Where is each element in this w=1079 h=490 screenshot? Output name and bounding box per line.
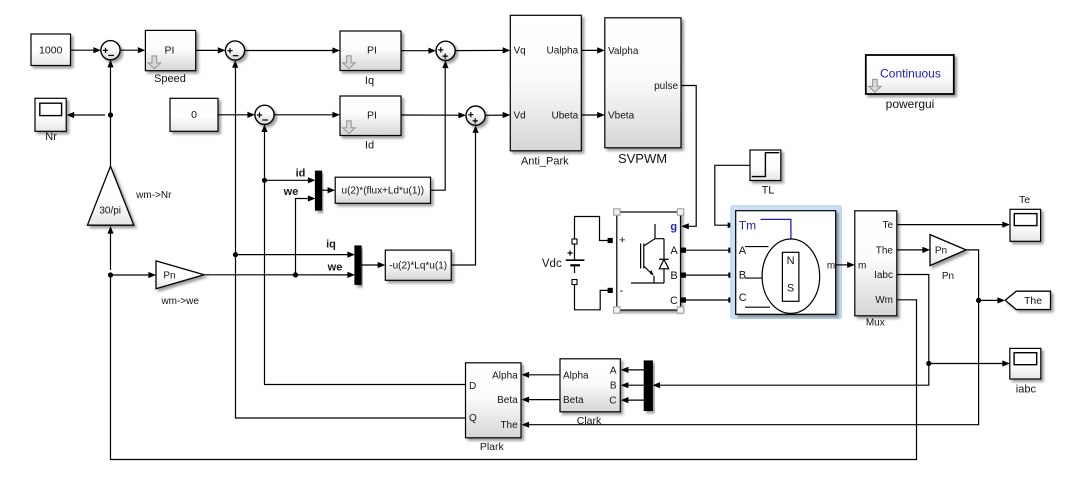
- motor stator stub lines: [745, 247, 770, 308]
- wire Mux Iabc to demux and iabc scope: [659, 275, 929, 386]
- svg-text:Te: Te: [1019, 194, 1030, 206]
- svg-text:m: m: [827, 261, 835, 272]
- svg-text:Iabc: Iabc: [874, 270, 893, 281]
- svg-text:Vbeta: Vbeta: [608, 110, 635, 121]
- gain block 30/pi (triangle up): [87, 166, 133, 225]
- PI controller block Iq: [340, 31, 401, 71]
- scope block Nr: [35, 98, 66, 131]
- svg-text:A: A: [670, 245, 678, 257]
- svg-text:PI: PI: [165, 45, 175, 57]
- svg-text:Wm: Wm: [875, 295, 893, 306]
- demux bar for abc currents: [644, 361, 652, 410]
- wire Mux The to Pn gain: [897, 249, 924, 251]
- node The branch: [976, 298, 981, 303]
- wire TL to motor Tm: [715, 165, 750, 225]
- svg-text:Alpha: Alpha: [492, 370, 518, 381]
- sum junction sum5 (d current error): [255, 105, 274, 124]
- svg-text:Valpha: Valpha: [608, 46, 639, 57]
- powergui block Continuous: [866, 55, 954, 94]
- selection handles of converter: [614, 209, 620, 215]
- PI controller block Id: [340, 96, 401, 136]
- svg-text:PI: PI: [367, 110, 377, 122]
- wire converter C to motor C: [681, 297, 686, 302]
- svg-text:g: g: [670, 221, 677, 233]
- scope block iabc: [1010, 348, 1041, 379]
- wire we: Pn output to mux2: [204, 274, 349, 276]
- port square battery +: [572, 239, 577, 244]
- function block -u(2)*Lq*u(1): [385, 250, 451, 280]
- svg-text:Speed: Speed: [154, 73, 186, 85]
- svg-text:Vd: Vd: [514, 110, 526, 121]
- node wm branch to Pn: [108, 272, 113, 277]
- svg-text:-: -: [620, 285, 624, 297]
- svg-text:TL: TL: [762, 184, 775, 196]
- svg-text:The: The: [1024, 295, 1042, 307]
- wire Clark Beta to Plark Beta: [528, 399, 560, 401]
- constant block 1000: [31, 34, 71, 66]
- svg-text:Tm: Tm: [739, 218, 756, 232]
- svg-text:Plark: Plark: [480, 441, 505, 453]
- IGBT and diode icon inside converter: [631, 224, 664, 283]
- svg-text:C: C: [609, 396, 616, 407]
- wire Ualpha to Valpha: [581, 49, 598, 51]
- subsystem block Clark: [560, 359, 620, 412]
- wire sum1 to Speed PI: [120, 49, 138, 51]
- svg-text:SVPWM: SVPWM: [618, 151, 667, 166]
- port square converter +: [608, 238, 613, 243]
- svg-text:we: we: [283, 186, 299, 198]
- svg-text:30/pi: 30/pi: [99, 206, 121, 217]
- svg-text:A: A: [610, 365, 617, 376]
- magnet N S box: [782, 252, 799, 301]
- svg-text:The: The: [500, 420, 518, 431]
- blue Tm wire to rotor: [761, 219, 791, 238]
- svg-text:-u(2)*Lq*u(1): -u(2)*Lq*u(1): [389, 261, 447, 272]
- port square converter -: [608, 288, 613, 293]
- subsystem block Plark: [466, 363, 522, 438]
- sum junction sum1 (speed error): [101, 41, 120, 60]
- svg-text:Continuous: Continuous: [880, 67, 941, 81]
- svg-text:wm->we: wm->we: [160, 296, 199, 307]
- wire iq branch to mux2: [233, 252, 238, 257]
- node we branch: [293, 272, 298, 277]
- svg-text:S: S: [787, 283, 794, 295]
- wire Pn output down to Plark The: [528, 250, 979, 425]
- universal bridge converter block: [617, 212, 681, 310]
- svg-text:The: The: [876, 245, 894, 256]
- svg-text:powergui: powergui: [886, 97, 935, 111]
- svg-text:Nr: Nr: [45, 131, 57, 143]
- wire demux to Clark C: [627, 399, 644, 401]
- wire converter B to motor B: [681, 273, 686, 278]
- svg-text:pulse: pulse: [654, 81, 678, 92]
- wire Lq block output up to sum6: [451, 132, 475, 265]
- svg-text:m: m: [858, 260, 866, 271]
- svg-text:N: N: [787, 255, 795, 267]
- subsystem block SVPWM: [605, 18, 681, 148]
- svg-text:u(2)*(flux+Ld*u(1)): u(2)*(flux+Ld*u(1)): [342, 186, 425, 197]
- wire converter A to motor A: [681, 248, 686, 253]
- svg-text:B: B: [670, 270, 677, 282]
- port square battery -: [572, 280, 577, 285]
- subsystem block Anti_Park: [510, 15, 581, 151]
- svg-text:C: C: [739, 292, 747, 304]
- wire Iq PI to sum4: [401, 50, 430, 52]
- sum junction sum4 (vq decoupling add): [436, 41, 455, 60]
- svg-text:iq: iq: [326, 239, 336, 251]
- svg-text:Anti_Park: Anti_Park: [521, 155, 569, 167]
- wire junction to Pn input: [111, 274, 150, 276]
- wire Mux Te to Te scope: [897, 224, 1004, 226]
- mux block mux2 (iq,we): [355, 246, 361, 284]
- svg-text:Vdc: Vdc: [542, 258, 562, 270]
- gain block Pn (The path): [930, 235, 966, 266]
- constant block 0: [170, 98, 218, 131]
- svg-text:Te: Te: [882, 220, 893, 231]
- wire Id PI to sum6: [401, 114, 460, 116]
- svg-text:Iq: Iq: [365, 75, 374, 87]
- svg-text:Pn: Pn: [163, 271, 175, 282]
- wire sum4 to Anti_Park Vq: [455, 49, 504, 51]
- function block u(2)*(flux+Ld*u(1)): [335, 177, 430, 203]
- rotor ellipse: [762, 239, 820, 313]
- svg-text:Id: Id: [365, 140, 374, 152]
- sum junction sum6 (vd decoupling add): [466, 106, 485, 125]
- wire mux2 to Lq function block: [361, 264, 379, 266]
- svg-text:+: +: [619, 235, 625, 247]
- wire 1000 to sum1: [71, 49, 95, 51]
- svg-text:Ubeta: Ubeta: [552, 110, 579, 121]
- wire Vdc plus to converter +: [574, 239, 576, 252]
- svg-text:C: C: [670, 295, 678, 307]
- mux block mux1 (id,we): [316, 171, 322, 210]
- svg-text:D: D: [469, 381, 476, 392]
- wire we branch up to mux1: [296, 199, 310, 275]
- wire sum6 to Anti_Park Vd: [485, 114, 504, 116]
- step block TL: [750, 150, 781, 181]
- svg-text:Pn: Pn: [935, 246, 947, 257]
- svg-text:0: 0: [191, 109, 197, 121]
- Mux block of measurements: [855, 211, 897, 316]
- node speed feedback branch: [108, 112, 113, 117]
- svg-text:1000: 1000: [39, 45, 63, 57]
- wire 0 to sum5: [218, 114, 249, 116]
- svg-text:Ualpha: Ualpha: [546, 46, 578, 57]
- wire sum5 to Id PI: [274, 114, 333, 116]
- svg-text:B: B: [739, 269, 746, 281]
- svg-text:Alpha: Alpha: [563, 370, 589, 381]
- svg-text:PI: PI: [367, 45, 377, 57]
- sum junction sum2 (q current error): [225, 41, 244, 60]
- PI controller block Speed: [145, 30, 195, 70]
- wire pulse to converter gate g: [681, 86, 696, 227]
- svg-text:B: B: [610, 381, 617, 392]
- svg-text:Clark: Clark: [577, 415, 602, 427]
- wire demux to Clark B: [627, 384, 644, 386]
- wire Mux Wm feedback to speed loop: [111, 275, 917, 460]
- wire Plark D feedback to sum5: [265, 131, 466, 385]
- wire Vdc minus to converter -: [575, 284, 608, 310]
- wire id branch to mux1: [262, 178, 267, 183]
- scope block Te: [1010, 209, 1041, 241]
- wire junction to Nr scope: [73, 114, 105, 116]
- svg-text:we: we: [327, 261, 343, 273]
- gain block Pn wm->we (triangle right): [156, 261, 204, 289]
- PMSM motor block: [736, 211, 836, 315]
- wire sum2 to Iq PI: [245, 50, 334, 52]
- svg-text:Vq: Vq: [514, 46, 526, 57]
- wire motor m to Mux: [836, 264, 848, 266]
- svg-text:Pn: Pn: [942, 271, 954, 282]
- wire The branch to goto tag: [979, 299, 999, 301]
- wire Plark Q feedback to sum2: [236, 67, 466, 418]
- svg-text:id: id: [296, 168, 306, 180]
- wire flux block output up to sum4: [431, 67, 446, 190]
- wire 30/pi output up to junction and sum1: [110, 67, 112, 167]
- svg-text:wm->Nr: wm->Nr: [135, 190, 172, 201]
- wire Clark Alpha to Plark Alpha: [528, 374, 560, 376]
- wire Speed PI to sum2: [196, 49, 219, 51]
- PMSM motor block selection halo: [731, 206, 842, 319]
- svg-text:Q: Q: [469, 413, 477, 424]
- svg-text:Beta: Beta: [497, 395, 518, 406]
- svg-text:Beta: Beta: [563, 395, 584, 406]
- node iabc branch: [926, 361, 931, 366]
- goto tag The: [1005, 291, 1050, 309]
- wire demux to Clark A: [627, 369, 644, 371]
- wire wm feedback up into 30/pi: [110, 233, 112, 270]
- svg-text:Mux: Mux: [866, 318, 885, 329]
- wire mux1 to flux function block: [322, 189, 329, 191]
- wire Ubeta to Vbeta: [581, 114, 598, 116]
- svg-text:iabc: iabc: [1016, 384, 1037, 396]
